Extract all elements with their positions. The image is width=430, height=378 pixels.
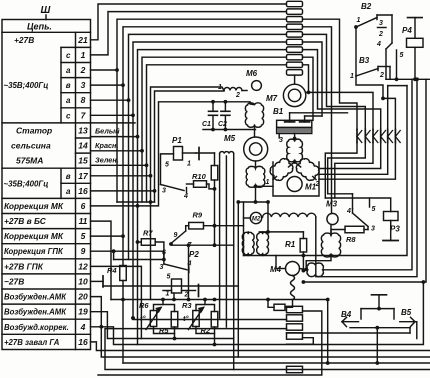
wire riser row7 down to bottom stack line <box>131 113 135 318</box>
svg-text:R1: R1 <box>285 240 296 249</box>
resistor R1 <box>285 232 307 273</box>
wire stack block10 to M7 <box>294 75 296 84</box>
M2 frame top rail <box>259 200 303 234</box>
contact 6-3 P2 <box>114 250 192 281</box>
wires table rows 21-15 to connector blocks <box>91 4 287 165</box>
svg-text:R8: R8 <box>346 235 356 244</box>
frame around M1 <box>273 162 319 196</box>
svg-text:6: 6 <box>81 201 86 211</box>
capacitor C2 <box>218 100 230 130</box>
wire B4B5 common <box>350 326 410 363</box>
wire riser row8 down <box>127 98 131 259</box>
winding M2 right <box>257 232 269 256</box>
svg-text:4: 4 <box>376 41 381 48</box>
wire M2 frame left <box>244 202 251 256</box>
wire riser 146.5 down <box>146 165 148 202</box>
wire row11 to bus y299.5 <box>91 221 112 299</box>
wire row12 down to bus <box>91 266 142 338</box>
svg-text:сельсина: сельсина <box>11 141 51 151</box>
contact 4-5-3 near M3 <box>346 198 376 233</box>
svg-text:3: 3 <box>160 264 164 271</box>
svg-text:М5: М5 <box>224 134 236 143</box>
svg-text:Коррекция ГПК: Коррекция ГПК <box>4 247 64 256</box>
svg-text:19: 19 <box>78 307 88 317</box>
svg-text:R6: R6 <box>139 301 149 310</box>
wire row16b to bottom bus <box>91 342 430 351</box>
switch B3 <box>350 56 390 80</box>
svg-text:М6: М6 <box>246 69 258 78</box>
wires K tops <box>303 19 396 213</box>
dots bottom <box>131 316 379 365</box>
M4 bottom spring <box>291 276 295 307</box>
winding M1 right <box>294 156 321 182</box>
svg-text:12: 12 <box>78 261 88 271</box>
svg-text:Красн.: Красн. <box>95 141 119 150</box>
relay P1 <box>161 136 200 185</box>
winding below M5 <box>246 161 265 202</box>
resistor R9 <box>186 211 244 229</box>
wire riser row3 down to R4 <box>121 83 125 265</box>
wire y85.6 line <box>388 85 407 87</box>
wire B2-B3 common <box>355 27 357 76</box>
motor M1 <box>266 177 320 192</box>
wire row4 to bottom bus <box>91 282 424 345</box>
wire riser 154.5 down <box>153 189 157 202</box>
wire contact4 up <box>352 194 354 209</box>
wire col 327.7 down <box>326 298 330 365</box>
table frame <box>2 20 91 350</box>
resistor R5 <box>159 312 178 336</box>
svg-text:5: 5 <box>167 274 171 281</box>
connector block stack top <box>287 1 303 75</box>
wire row19 to bottom bus <box>91 312 234 339</box>
svg-text:Возбужден.АМК: Возбужден.АМК <box>4 293 67 302</box>
winding below M3 <box>321 225 340 258</box>
motor M2 <box>250 212 261 223</box>
svg-text:С1: С1 <box>202 121 211 128</box>
switch B4 <box>341 310 359 327</box>
svg-text:в: в <box>66 81 71 90</box>
wire row6 to capacitor bus <box>91 102 255 206</box>
resistor R7 <box>136 229 166 262</box>
wire line y193.8 to contact4 <box>328 193 353 195</box>
svg-text:5: 5 <box>165 162 169 169</box>
svg-text:Статор: Статор <box>16 125 52 135</box>
wire P2 area vertical to bus <box>187 243 191 301</box>
wire M2coil-right col down <box>316 77 419 276</box>
svg-text:3: 3 <box>379 20 383 27</box>
wire staircase y202 left <box>117 200 155 204</box>
pin10 terminator <box>91 276 104 287</box>
svg-text:М2: М2 <box>252 217 261 223</box>
switch B5 <box>400 308 417 339</box>
wire vertical resistor down <box>214 189 216 245</box>
svg-text:2: 2 <box>80 65 86 75</box>
switch B4-B5 actuator <box>361 295 394 319</box>
wire riser150.5 staircase down <box>150 176 152 300</box>
svg-text:4: 4 <box>80 322 86 332</box>
connector stack bottom <box>287 306 303 372</box>
switch B2 pin 5 <box>397 50 404 79</box>
svg-text:Зелен.: Зелен. <box>95 156 119 165</box>
svg-text:Коррекция МК: Коррекция МК <box>4 231 64 241</box>
wire riser 137.5 down <box>136 137 140 345</box>
svg-text:5: 5 <box>400 52 404 59</box>
svg-text:В5: В5 <box>401 308 412 317</box>
svg-text:R7: R7 <box>143 229 153 238</box>
svg-text:1: 1 <box>218 84 222 91</box>
svg-text:3: 3 <box>81 80 86 90</box>
frame R3-R2 <box>196 298 216 347</box>
relay P2 coil <box>163 279 199 299</box>
wire riser row2 down to y202 line <box>115 68 119 202</box>
svg-text:1: 1 <box>166 291 170 298</box>
svg-text:R10: R10 <box>192 172 207 181</box>
svg-text:а: а <box>66 96 71 105</box>
svg-text:Возбужд.коррек.: Возбужд.коррек. <box>4 323 69 332</box>
contact 3-4 of P1 <box>161 185 189 201</box>
winding above M5 <box>245 103 263 137</box>
svg-text:11: 11 <box>79 216 88 226</box>
wire row9 to P2 contact <box>91 249 164 259</box>
svg-text:2: 2 <box>235 92 240 99</box>
svg-text:575МА: 575МА <box>16 156 43 166</box>
svg-text:R9: R9 <box>193 211 203 220</box>
svg-text:~35В;400Гц: ~35В;400Гц <box>4 81 49 90</box>
svg-text:+27В в БС: +27В в БС <box>4 216 47 226</box>
wire row20 to bottom bus <box>91 297 430 357</box>
relay P4 <box>402 18 423 80</box>
svg-text:t°: t° <box>140 314 146 323</box>
svg-text:7: 7 <box>81 110 87 120</box>
contact group K symbols <box>357 130 400 143</box>
svg-text:В3: В3 <box>359 56 370 65</box>
relay P3 <box>325 198 400 241</box>
wire b1 right to vertical <box>98 311 322 375</box>
winding M1 left <box>268 156 295 182</box>
svg-text:14: 14 <box>78 141 88 151</box>
winding M1 top <box>287 139 303 163</box>
wire P1 pin1 lead <box>196 152 215 154</box>
coil with three legs <box>220 152 234 370</box>
wire row5 to R4 top <box>91 234 125 238</box>
wire col 238.3 <box>236 200 240 357</box>
motor M4 <box>270 256 300 276</box>
motor M5 <box>224 134 268 161</box>
svg-text:М7: М7 <box>266 94 278 103</box>
wire capacitor bottom bus <box>203 128 256 132</box>
svg-text:1: 1 <box>81 50 86 60</box>
wires bottom stack to left <box>105 316 430 369</box>
switch B2 <box>354 2 392 79</box>
svg-text:Р3: Р3 <box>390 225 400 234</box>
motor M7 <box>266 84 306 106</box>
connector designation Sh <box>41 5 51 20</box>
resistor R10 <box>187 172 215 189</box>
svg-text:5: 5 <box>81 231 86 241</box>
capacitor C1 <box>202 100 218 130</box>
svg-text:5: 5 <box>372 206 376 213</box>
svg-text:3: 3 <box>371 226 375 233</box>
wire B3 down and right <box>356 76 383 98</box>
wire contact pivot line <box>171 243 234 247</box>
junction M1 star point <box>293 160 297 164</box>
svg-text:3: 3 <box>162 188 166 195</box>
wire P2 bottom to bus <box>172 293 176 301</box>
table pin numbers <box>66 35 89 347</box>
svg-text:+27В: +27В <box>14 35 34 45</box>
svg-text:13: 13 <box>78 125 88 135</box>
contact 9-7 <box>169 226 192 249</box>
resistor R4 <box>107 266 126 364</box>
rotor M6 <box>246 69 261 90</box>
thermistor R3 <box>182 301 204 330</box>
inductor pins 1-2 <box>218 84 247 99</box>
svg-text:1: 1 <box>357 17 361 24</box>
svg-text:1: 1 <box>187 161 191 168</box>
svg-text:В2: В2 <box>361 2 372 11</box>
bottom bus y333 <box>287 332 411 334</box>
svg-text:Р4: Р4 <box>402 26 412 35</box>
svg-text:16: 16 <box>78 337 88 347</box>
svg-text:+27В ГПК: +27В ГПК <box>4 261 44 271</box>
svg-text:В1: В1 <box>273 107 284 116</box>
wire bus y202 right <box>238 200 268 204</box>
M2 rotor coil <box>262 213 316 217</box>
svg-text:10: 10 <box>78 276 88 286</box>
coil right of M4 <box>307 79 412 276</box>
svg-text:16: 16 <box>78 186 88 196</box>
wire line y282 <box>302 79 427 284</box>
bus y299.5 <box>111 298 328 302</box>
svg-text:а: а <box>66 187 71 196</box>
svg-text:15: 15 <box>78 156 88 166</box>
svg-text:Коррекция МК: Коррекция МК <box>4 201 64 211</box>
stub block left <box>266 298 292 311</box>
M2 frame bottom rail <box>244 86 408 256</box>
wire M4 to coil <box>300 269 308 270</box>
frame R6-R5 <box>154 298 177 341</box>
svg-text:9: 9 <box>81 246 86 256</box>
svg-text:20: 20 <box>77 292 88 302</box>
svg-text:R3: R3 <box>182 301 192 310</box>
bottom bus y363 <box>123 362 430 364</box>
wire line y286 <box>103 285 238 287</box>
svg-text:R4: R4 <box>107 266 117 275</box>
svg-text:1: 1 <box>266 179 270 186</box>
svg-text:t°: t° <box>183 314 189 323</box>
table circuit names <box>4 35 69 347</box>
svg-text:17: 17 <box>78 171 89 181</box>
resistor R8 <box>331 226 368 244</box>
wires K bottoms nest <box>319 143 395 199</box>
svg-text:4: 4 <box>346 208 351 215</box>
wire labels for selsyn stator <box>91 123 149 167</box>
wire right top bus <box>386 77 430 81</box>
svg-text:в: в <box>66 172 71 181</box>
winding M2 left <box>242 232 254 256</box>
wire M3 winding to M4 node <box>304 256 331 272</box>
svg-text:с: с <box>66 51 71 60</box>
wire riser 142 down <box>141 151 143 202</box>
wire row16 to coil feed 2 <box>91 91 225 191</box>
wire M5 to M1 frame <box>256 185 274 187</box>
vertical resistor near R10 <box>211 153 218 191</box>
svg-text:2: 2 <box>379 72 384 79</box>
wire B1 right pin line <box>305 115 322 117</box>
svg-text:а: а <box>66 66 71 75</box>
svg-text:+27В завал ГА: +27В завал ГА <box>4 338 60 347</box>
svg-text:−27В: −27В <box>4 276 24 286</box>
thermistor R6 <box>139 301 161 330</box>
svg-text:Возбужден.АМК: Возбужден.АМК <box>4 308 67 317</box>
motor M3 <box>326 200 338 225</box>
svg-text:8: 8 <box>81 95 86 105</box>
vibrator B1 <box>273 107 312 144</box>
svg-text:Р1: Р1 <box>172 136 182 145</box>
svg-text:1: 1 <box>350 73 354 80</box>
svg-text:2: 2 <box>184 292 189 299</box>
svg-text:с: с <box>66 111 71 120</box>
wire row17 to coil feed <box>91 87 225 176</box>
svg-text:21: 21 <box>77 35 88 45</box>
svg-text:2: 2 <box>378 31 383 38</box>
svg-text:Цепь.: Цепь. <box>27 22 52 32</box>
wire B1 left pin line <box>290 112 348 114</box>
svg-text:~35В;400Гц: ~35В;400Гц <box>4 179 49 188</box>
wire riser 150.5 upper <box>149 174 153 178</box>
resistor R2 <box>201 312 218 336</box>
svg-text:Р2: Р2 <box>189 250 199 259</box>
svg-text:4: 4 <box>183 193 188 200</box>
